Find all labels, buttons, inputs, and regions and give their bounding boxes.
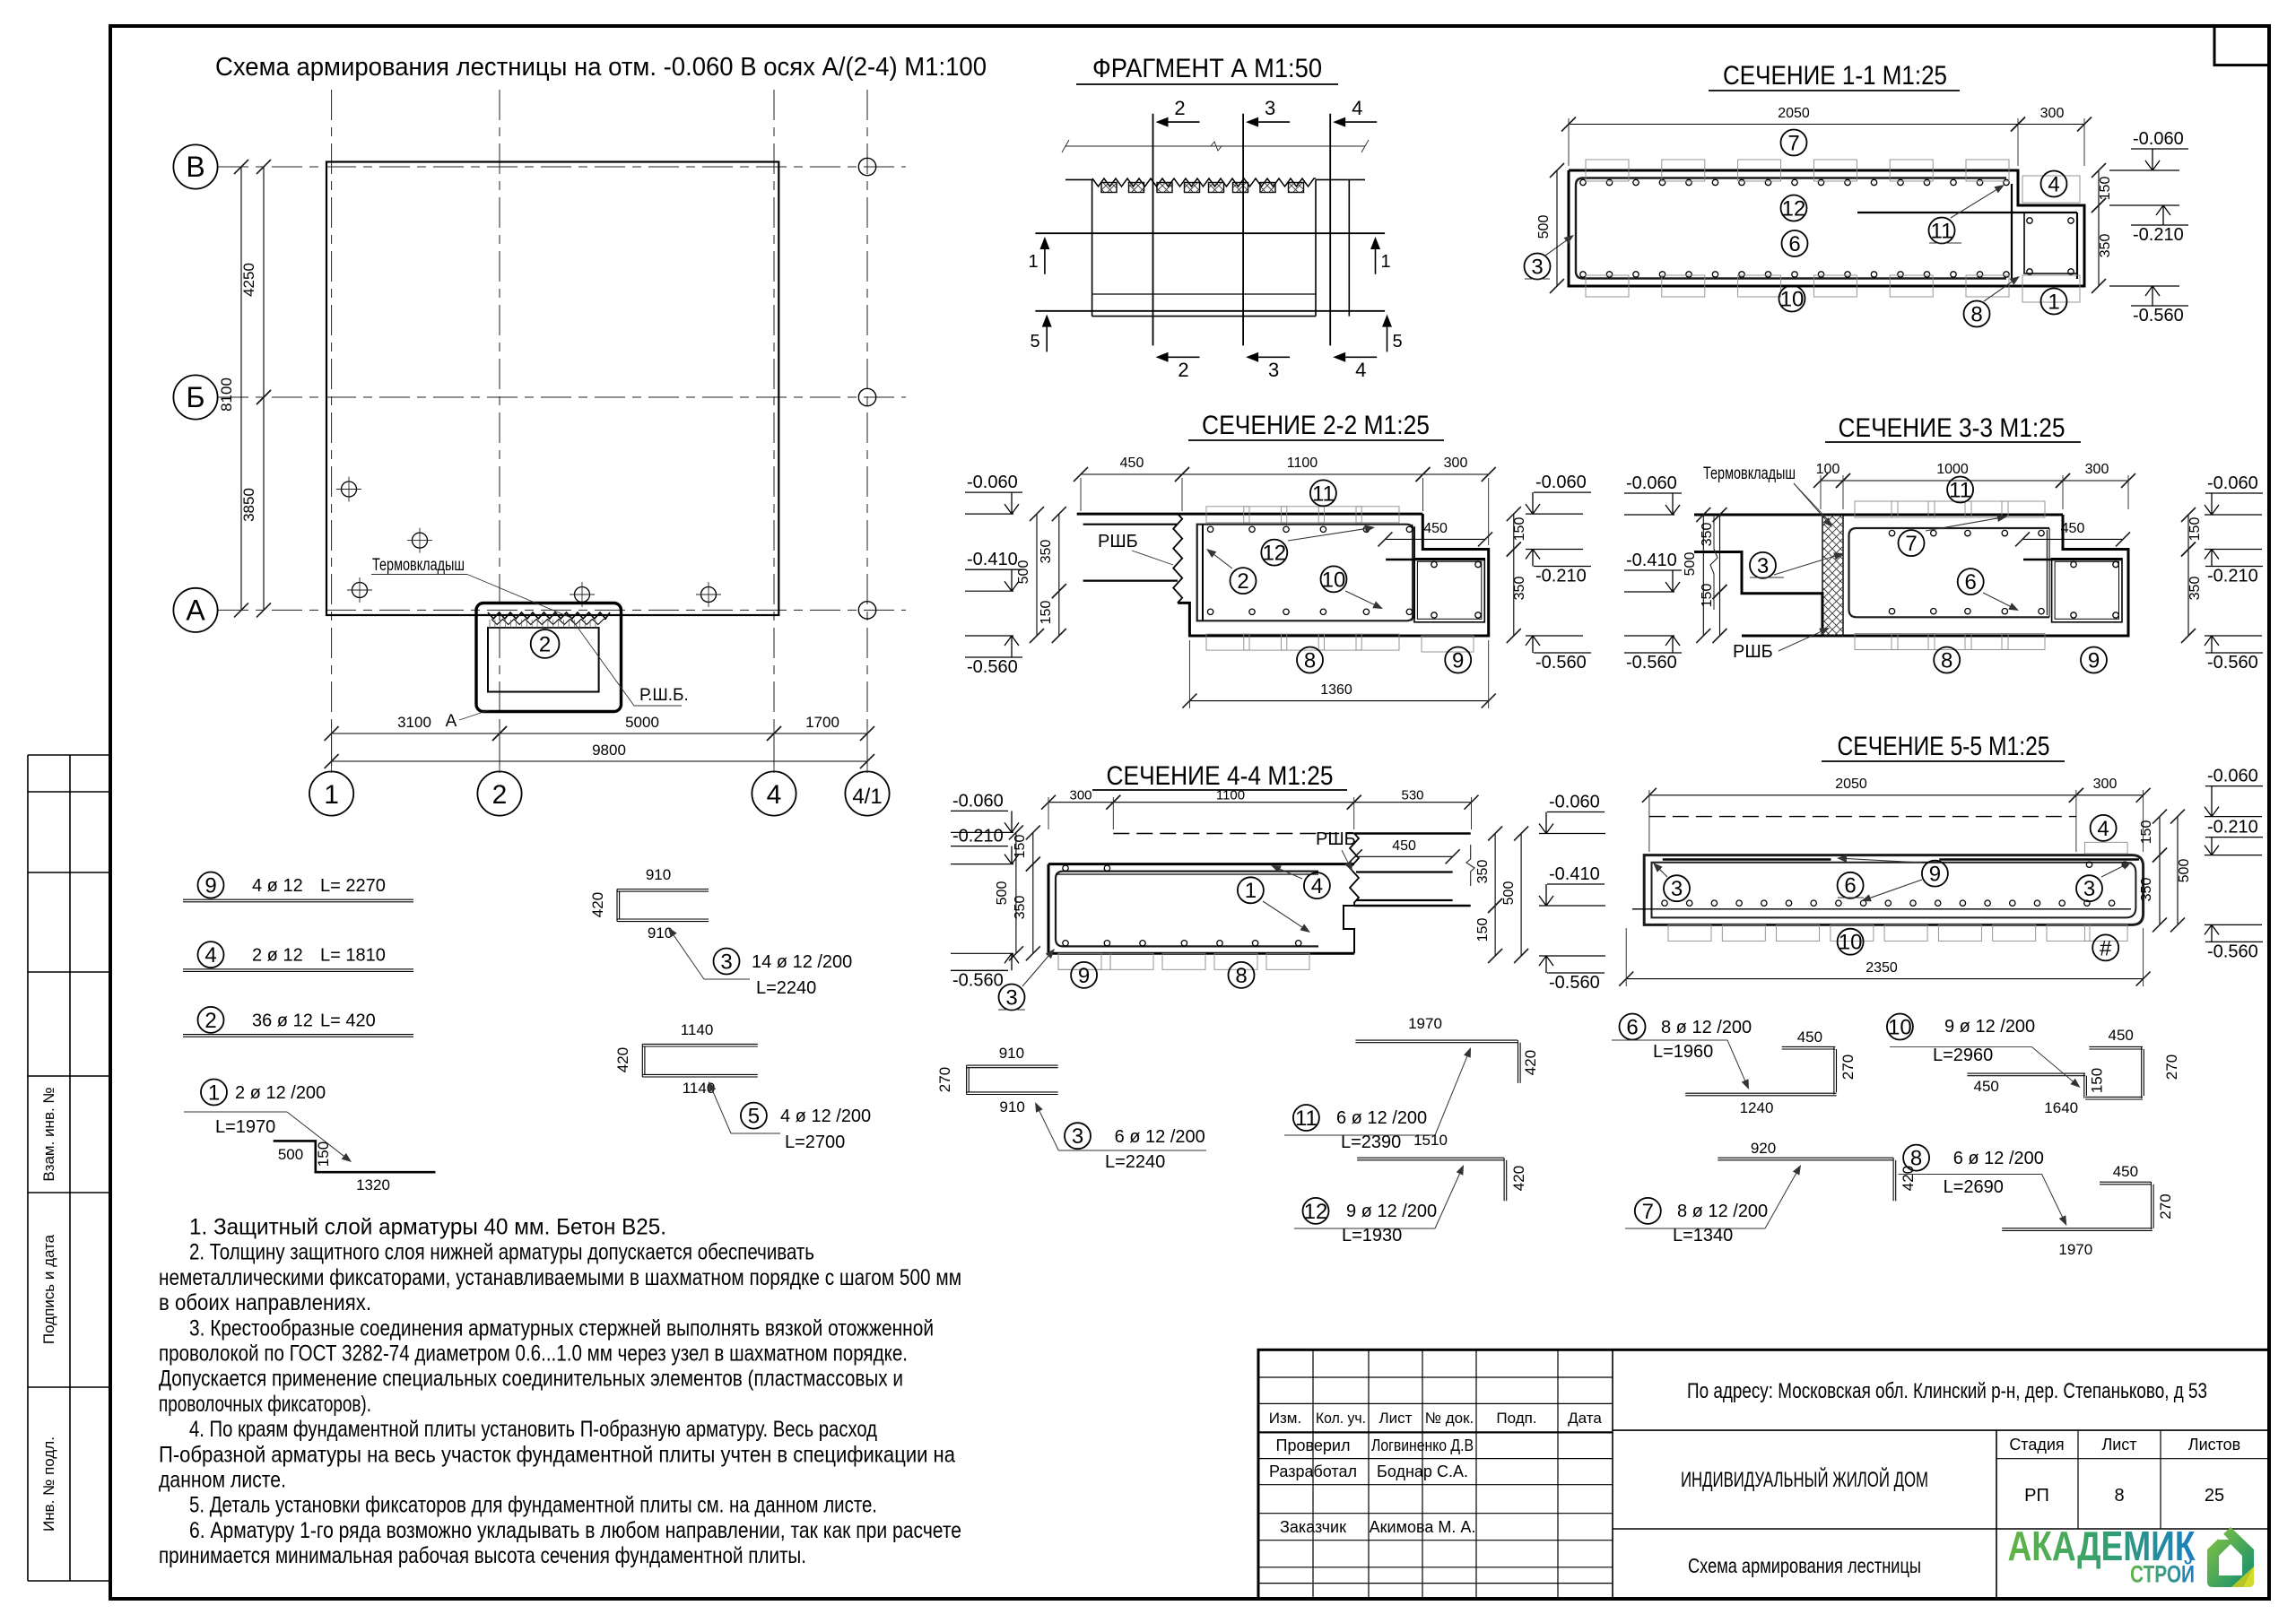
svg-text:6: 6 bbox=[1626, 1015, 1638, 1039]
svg-text:Схема армирования лестницы: Схема армирования лестницы bbox=[1688, 1554, 1921, 1577]
svg-text:150: 150 bbox=[1039, 601, 1054, 625]
svg-text:В: В bbox=[186, 151, 204, 183]
svg-text:-0.060: -0.060 bbox=[2207, 767, 2258, 786]
svg-text:500: 500 bbox=[278, 1146, 303, 1163]
svg-text:7: 7 bbox=[1905, 532, 1917, 556]
svg-text:СЕЧЕНИЕ 3-3 М1:25: СЕЧЕНИЕ 3-3 М1:25 bbox=[1839, 413, 2066, 443]
svg-text:Допускается применение специал: Допускается применение специальных соеди… bbox=[159, 1367, 903, 1392]
svg-text:450: 450 bbox=[1392, 838, 1416, 854]
svg-text:3: 3 bbox=[2083, 877, 2095, 901]
svg-text:-0.210: -0.210 bbox=[2207, 567, 2258, 586]
svg-text:350: 350 bbox=[1700, 523, 1715, 547]
svg-text:Лист: Лист bbox=[2101, 1436, 2136, 1454]
svg-text:100: 100 bbox=[1816, 462, 1840, 477]
svg-text:2 ø 12 /200: 2 ø 12 /200 bbox=[235, 1083, 326, 1103]
svg-text:270: 270 bbox=[2157, 1193, 2174, 1219]
svg-text:270: 270 bbox=[2163, 1055, 2180, 1080]
svg-text:4: 4 bbox=[2097, 817, 2109, 841]
svg-text:проволочных фиксаторов).: проволочных фиксаторов). bbox=[159, 1392, 371, 1417]
svg-text:П-образной арматуры на весь уч: П-образной арматуры на весь участок фунд… bbox=[159, 1442, 955, 1467]
svg-text:Проверил: Проверил bbox=[1276, 1436, 1351, 1454]
svg-text:150: 150 bbox=[2098, 177, 2113, 201]
svg-text:Р.Ш.Б.: Р.Ш.Б. bbox=[639, 686, 689, 705]
svg-text:-0.060: -0.060 bbox=[967, 473, 1018, 492]
svg-text:450: 450 bbox=[1797, 1028, 1822, 1046]
svg-text:Разработал: Разработал bbox=[1269, 1462, 1357, 1480]
svg-text:11: 11 bbox=[1931, 219, 1953, 243]
svg-text:920: 920 bbox=[1751, 1140, 1776, 1157]
svg-text:4: 4 bbox=[1352, 97, 1362, 119]
svg-text:Подп.: Подп. bbox=[1496, 1410, 1536, 1427]
svg-text:8: 8 bbox=[1910, 1147, 1922, 1171]
svg-text:-0.410: -0.410 bbox=[967, 550, 1018, 569]
svg-text:10: 10 bbox=[1322, 568, 1346, 592]
svg-text:3: 3 bbox=[720, 950, 732, 974]
svg-text:300: 300 bbox=[1069, 788, 1091, 803]
svg-text:5. Деталь установки фиксаторо: 5. Деталь установки фиксаторов для фунда… bbox=[189, 1493, 877, 1518]
svg-text:150: 150 bbox=[1475, 918, 1491, 942]
svg-text:11: 11 bbox=[1312, 482, 1335, 506]
svg-text:1100: 1100 bbox=[1216, 788, 1245, 803]
svg-text:450: 450 bbox=[1423, 521, 1448, 536]
svg-text:300: 300 bbox=[2040, 106, 2065, 121]
svg-text:11: 11 bbox=[1949, 478, 1971, 502]
svg-text:420: 420 bbox=[1522, 1050, 1539, 1075]
svg-text:3: 3 bbox=[1072, 1124, 1083, 1149]
svg-text:№ док.: № док. bbox=[1425, 1410, 1474, 1427]
svg-text:-0.060: -0.060 bbox=[2207, 473, 2258, 493]
svg-text:L=1970: L=1970 bbox=[215, 1117, 275, 1137]
svg-text:1360: 1360 bbox=[1320, 682, 1352, 698]
svg-text:9 ø 12 /200: 9 ø 12 /200 bbox=[1346, 1202, 1437, 1221]
svg-text:9: 9 bbox=[1929, 863, 1941, 887]
svg-text:150: 150 bbox=[2088, 1068, 2105, 1093]
svg-text:Инв. № подл.: Инв. № подл. bbox=[40, 1436, 57, 1532]
svg-text:8 ø 12 /200: 8 ø 12 /200 bbox=[1677, 1202, 1768, 1221]
svg-text:9: 9 bbox=[2088, 648, 2100, 673]
svg-text:1100: 1100 bbox=[1287, 456, 1318, 471]
svg-text:270: 270 bbox=[936, 1067, 953, 1092]
svg-text:-0.060: -0.060 bbox=[952, 791, 1004, 811]
svg-text:СЕЧЕНИЕ 2-2 М1:25: СЕЧЕНИЕ 2-2 М1:25 bbox=[1202, 411, 1430, 440]
svg-text:4. По краям фундаментной плит: 4. По краям фундаментной плиты установит… bbox=[189, 1417, 877, 1442]
svg-text:2: 2 bbox=[539, 632, 551, 656]
svg-text:1: 1 bbox=[208, 1081, 220, 1105]
svg-text:1: 1 bbox=[324, 780, 339, 810]
svg-text:2: 2 bbox=[492, 780, 508, 810]
svg-text:2. Толщину защитного слоя ниж: 2. Толщину защитного слоя нижней арматур… bbox=[189, 1240, 814, 1265]
svg-text:СЕЧЕНИЕ 4-4 М1:25: СЕЧЕНИЕ 4-4 М1:25 bbox=[1107, 761, 1334, 791]
svg-text:проволокой по ГОСТ 3282-74 диа: проволокой по ГОСТ 3282-74 диаметром 0.6… bbox=[159, 1341, 908, 1367]
svg-text:8: 8 bbox=[1970, 302, 1982, 326]
svg-text:4250: 4250 bbox=[240, 263, 257, 297]
svg-text:450: 450 bbox=[2061, 521, 2085, 536]
svg-text:7: 7 bbox=[1787, 131, 1799, 155]
svg-text:530: 530 bbox=[1401, 788, 1423, 803]
svg-text:9 ø 12 /200: 9 ø 12 /200 bbox=[1944, 1017, 2035, 1037]
svg-text:350: 350 bbox=[1013, 896, 1028, 920]
svg-text:1640: 1640 bbox=[2044, 1099, 2078, 1116]
svg-text:8: 8 bbox=[1235, 964, 1247, 988]
svg-text:-0.210: -0.210 bbox=[2133, 225, 2184, 245]
svg-text:6: 6 bbox=[1965, 570, 1977, 595]
svg-text:СЕЧЕНИЕ 1-1 М1:25: СЕЧЕНИЕ 1-1 М1:25 bbox=[1723, 61, 1947, 91]
svg-text:1. Защитный слой арматуры 40: 1. Защитный слой арматуры 40 мм. Бетон В… bbox=[189, 1215, 666, 1240]
svg-text:1000: 1000 bbox=[1936, 462, 1969, 477]
svg-text:L=2690: L=2690 bbox=[1944, 1177, 2004, 1197]
svg-text:Термовкладыш: Термовкладыш bbox=[1703, 464, 1796, 483]
svg-text:1: 1 bbox=[1380, 252, 1390, 272]
svg-text:9: 9 bbox=[1078, 964, 1090, 988]
svg-text:36 ø 12: 36 ø 12 bbox=[252, 1011, 313, 1030]
svg-text:L= 2270: L= 2270 bbox=[320, 876, 386, 896]
svg-text:6 ø 12 /200: 6 ø 12 /200 bbox=[1115, 1127, 1205, 1147]
svg-text:L= 1810: L= 1810 bbox=[320, 946, 386, 966]
svg-text:150: 150 bbox=[1013, 835, 1028, 859]
svg-text:1: 1 bbox=[1028, 252, 1038, 272]
svg-text:4: 4 bbox=[2048, 172, 2059, 196]
svg-text:-0.060: -0.060 bbox=[1626, 473, 1677, 493]
svg-text:350: 350 bbox=[2187, 577, 2203, 601]
svg-text:-0.560: -0.560 bbox=[2133, 306, 2184, 325]
svg-text:Взам. инв. №: Взам. инв. № bbox=[40, 1087, 57, 1181]
svg-text:Термовкладыш: Термовкладыш bbox=[372, 556, 465, 575]
svg-text:6. Арматуру 1-го ряда возможн: 6. Арматуру 1-го ряда возможно укладыват… bbox=[189, 1518, 961, 1543]
svg-text:2: 2 bbox=[1237, 569, 1248, 594]
svg-text:-0.060: -0.060 bbox=[1535, 473, 1587, 492]
svg-text:1140: 1140 bbox=[681, 1021, 714, 1038]
svg-text:10: 10 bbox=[1839, 931, 1863, 955]
svg-text:8100: 8100 bbox=[218, 378, 235, 412]
svg-text:8 ø 12 /200: 8 ø 12 /200 bbox=[1661, 1018, 1752, 1037]
svg-text:500: 500 bbox=[2177, 859, 2192, 883]
svg-text:3: 3 bbox=[1671, 877, 1683, 901]
svg-text:450: 450 bbox=[1974, 1078, 1999, 1095]
svg-text:Изм.: Изм. bbox=[1269, 1410, 1301, 1427]
svg-text:принимается минимальная рабоча: принимается минимальная рабочая высота с… bbox=[159, 1543, 806, 1568]
svg-text:L= 420: L= 420 bbox=[320, 1011, 376, 1030]
svg-text:-0.210: -0.210 bbox=[1535, 567, 1587, 586]
svg-text:6: 6 bbox=[1788, 232, 1800, 256]
svg-text:Заказчик: Заказчик bbox=[1280, 1518, 1346, 1536]
svg-text:А: А bbox=[446, 712, 457, 731]
svg-text:420: 420 bbox=[1510, 1166, 1527, 1191]
svg-text:150: 150 bbox=[1700, 584, 1715, 608]
svg-text:12: 12 bbox=[1262, 542, 1286, 566]
svg-text:14 ø 12 /200: 14 ø 12 /200 bbox=[752, 952, 852, 972]
svg-text:-0.560: -0.560 bbox=[967, 657, 1018, 677]
svg-text:Кол. уч.: Кол. уч. bbox=[1316, 1410, 1366, 1427]
svg-text:7: 7 bbox=[1642, 1200, 1654, 1224]
svg-text:-0.210: -0.210 bbox=[952, 827, 1004, 846]
svg-text:11: 11 bbox=[1295, 1107, 1318, 1131]
svg-text:910: 910 bbox=[648, 924, 673, 942]
svg-text:12: 12 bbox=[1304, 1200, 1328, 1224]
svg-text:L=2700: L=2700 bbox=[785, 1133, 845, 1152]
svg-text:1970: 1970 bbox=[2058, 1241, 2092, 1258]
svg-text:1: 1 bbox=[1245, 879, 1257, 903]
svg-text:350: 350 bbox=[1512, 577, 1527, 601]
svg-text:3100: 3100 bbox=[397, 714, 431, 731]
svg-text:8: 8 bbox=[2114, 1486, 2124, 1506]
svg-text:По адресу: Московская обл. Кли: По адресу: Московская обл. Клинский р-н,… bbox=[1687, 1379, 2207, 1403]
svg-text:500: 500 bbox=[1016, 560, 1031, 585]
svg-text:СТРОЙ: СТРОЙ bbox=[2130, 1560, 2195, 1588]
svg-text:-0.560: -0.560 bbox=[1626, 653, 1677, 673]
svg-text:1240: 1240 bbox=[1740, 1099, 1774, 1116]
svg-text:6: 6 bbox=[1844, 874, 1856, 898]
svg-text:9: 9 bbox=[204, 873, 216, 898]
svg-text:2350: 2350 bbox=[1865, 960, 1898, 976]
svg-text:500: 500 bbox=[1501, 881, 1517, 906]
svg-text:СЕЧЕНИЕ 5-5 М1:25: СЕЧЕНИЕ 5-5 М1:25 bbox=[1838, 732, 2050, 761]
svg-text:Стадия: Стадия bbox=[2009, 1436, 2064, 1454]
svg-text:L=2960: L=2960 bbox=[1933, 1046, 1993, 1065]
svg-text:910: 910 bbox=[646, 866, 671, 883]
svg-text:25: 25 bbox=[2205, 1486, 2224, 1506]
svg-text:270: 270 bbox=[1839, 1055, 1857, 1080]
svg-text:4: 4 bbox=[1355, 359, 1366, 381]
svg-text:10: 10 bbox=[1780, 287, 1805, 311]
svg-text:-0.410: -0.410 bbox=[1549, 864, 1600, 884]
svg-text:-0.560: -0.560 bbox=[952, 970, 1004, 990]
svg-text:10: 10 bbox=[1888, 1015, 1912, 1039]
svg-text:300: 300 bbox=[2085, 462, 2109, 477]
svg-text:Боднар С.А.: Боднар С.А. bbox=[1377, 1462, 1468, 1480]
svg-text:-0.060: -0.060 bbox=[2133, 129, 2184, 149]
svg-text:#: # bbox=[2100, 936, 2112, 960]
svg-text:1510: 1510 bbox=[1413, 1132, 1448, 1149]
svg-text:5: 5 bbox=[748, 1105, 760, 1129]
svg-text:-0.560: -0.560 bbox=[2207, 653, 2258, 673]
svg-text:4: 4 bbox=[767, 780, 782, 810]
svg-text:Схема армирования лестницы на: Схема армирования лестницы на отм. -0.06… bbox=[215, 53, 987, 82]
svg-text:2: 2 bbox=[204, 1009, 216, 1033]
svg-text:12: 12 bbox=[1782, 196, 1806, 221]
svg-text:4/1: 4/1 bbox=[852, 785, 882, 809]
svg-text:РШБ: РШБ bbox=[1316, 829, 1356, 849]
svg-text:150: 150 bbox=[2139, 820, 2154, 845]
svg-text:500: 500 bbox=[995, 881, 1010, 906]
svg-text:ФРАГМЕНТ А М1:50: ФРАГМЕНТ А М1:50 bbox=[1092, 54, 1322, 83]
svg-text:9: 9 bbox=[1452, 648, 1464, 673]
svg-text:6 ø 12 /200: 6 ø 12 /200 bbox=[1953, 1149, 2044, 1168]
svg-text:3: 3 bbox=[1265, 97, 1275, 119]
svg-text:3850: 3850 bbox=[240, 488, 257, 522]
svg-text:2050: 2050 bbox=[1835, 777, 1867, 792]
svg-text:350: 350 bbox=[2139, 878, 2154, 902]
svg-text:150: 150 bbox=[1512, 517, 1527, 542]
svg-text:8: 8 bbox=[1941, 648, 1952, 673]
svg-text:Логвиненко Д.В: Логвиненко Д.В bbox=[1371, 1436, 1474, 1454]
svg-text:5: 5 bbox=[1030, 332, 1039, 352]
svg-text:910: 910 bbox=[999, 1098, 1024, 1115]
svg-text:-0.560: -0.560 bbox=[1549, 973, 1600, 993]
svg-text:А: А bbox=[186, 594, 205, 626]
svg-text:350: 350 bbox=[1039, 540, 1054, 564]
svg-text:4 ø 12 /200: 4 ø 12 /200 bbox=[780, 1107, 871, 1126]
svg-text:2: 2 bbox=[1174, 97, 1185, 119]
svg-text:5000: 5000 bbox=[625, 714, 659, 731]
svg-text:L=2240: L=2240 bbox=[756, 978, 816, 998]
svg-text:1970: 1970 bbox=[1408, 1015, 1442, 1032]
svg-text:9800: 9800 bbox=[592, 742, 626, 759]
svg-text:450: 450 bbox=[1120, 456, 1144, 471]
svg-text:350: 350 bbox=[1475, 860, 1491, 884]
svg-text:420: 420 bbox=[589, 892, 606, 917]
svg-text:2050: 2050 bbox=[1778, 106, 1810, 121]
svg-text:-0.060: -0.060 bbox=[1549, 793, 1600, 812]
svg-text:3. Крестообразные соединения: 3. Крестообразные соединения арматурных … bbox=[189, 1315, 934, 1341]
svg-text:-0.560: -0.560 bbox=[2207, 942, 2258, 961]
svg-text:Лист: Лист bbox=[1379, 1410, 1413, 1427]
svg-text:Б: Б bbox=[187, 381, 205, 413]
svg-text:500: 500 bbox=[1683, 552, 1698, 577]
svg-text:Подпись и дата: Подпись и дата bbox=[40, 1234, 57, 1344]
svg-text:в обоих направлениях.: в обоих направлениях. bbox=[159, 1290, 371, 1315]
svg-text:3: 3 bbox=[1531, 255, 1543, 279]
svg-text:150: 150 bbox=[2187, 517, 2203, 542]
svg-text:-0.560: -0.560 bbox=[1535, 653, 1587, 673]
svg-text:1320: 1320 bbox=[356, 1176, 390, 1193]
svg-text:-0.410: -0.410 bbox=[1626, 551, 1677, 570]
svg-text:РШБ: РШБ bbox=[1098, 532, 1138, 551]
svg-text:450: 450 bbox=[2109, 1027, 2134, 1044]
svg-text:Листов: Листов bbox=[2188, 1436, 2240, 1454]
svg-text:4: 4 bbox=[204, 943, 216, 968]
svg-text:РП: РП bbox=[2024, 1486, 2049, 1506]
svg-text:350: 350 bbox=[2098, 234, 2113, 258]
svg-text:4 ø 12: 4 ø 12 bbox=[252, 876, 303, 896]
svg-text:450: 450 bbox=[2113, 1163, 2138, 1180]
svg-text:РШБ: РШБ bbox=[1733, 642, 1773, 662]
svg-text:Дата: Дата bbox=[1568, 1410, 1602, 1427]
svg-text:500: 500 bbox=[1536, 215, 1552, 239]
svg-text:150: 150 bbox=[315, 1141, 332, 1167]
svg-text:1700: 1700 bbox=[805, 714, 839, 731]
svg-text:8: 8 bbox=[1304, 648, 1316, 673]
svg-text:3: 3 bbox=[1005, 985, 1017, 1010]
svg-text:4: 4 bbox=[1311, 874, 1323, 898]
svg-text:L=2240: L=2240 bbox=[1105, 1152, 1165, 1172]
svg-text:6 ø 12 /200: 6 ø 12 /200 bbox=[1336, 1108, 1427, 1128]
svg-text:910: 910 bbox=[999, 1045, 1024, 1062]
svg-text:данном листе.: данном листе. bbox=[159, 1468, 286, 1493]
svg-text:420: 420 bbox=[614, 1047, 631, 1072]
svg-text:2: 2 bbox=[1178, 359, 1188, 381]
svg-text:ИНДИВИДУАЛЬНЫЙ ЖИЛОЙ ДОМ: ИНДИВИДУАЛЬНЫЙ ЖИЛОЙ ДОМ bbox=[1681, 1467, 1928, 1492]
svg-text:5: 5 bbox=[1392, 332, 1402, 352]
svg-text:3: 3 bbox=[1268, 359, 1279, 381]
svg-text:3: 3 bbox=[1757, 554, 1769, 578]
svg-text:-0.210: -0.210 bbox=[2207, 818, 2258, 838]
svg-text:Акимова М. А.: Акимова М. А. bbox=[1370, 1518, 1476, 1536]
svg-text:L=1960: L=1960 bbox=[1653, 1042, 1713, 1062]
svg-text:1: 1 bbox=[2048, 290, 2059, 314]
svg-text:2 ø 12: 2 ø 12 bbox=[252, 946, 303, 966]
svg-text:неметаллическими фиксаторами,: неметаллическими фиксаторами, устанавлив… bbox=[159, 1265, 961, 1290]
svg-text:300: 300 bbox=[2093, 777, 2118, 792]
svg-text:300: 300 bbox=[1444, 456, 1468, 471]
